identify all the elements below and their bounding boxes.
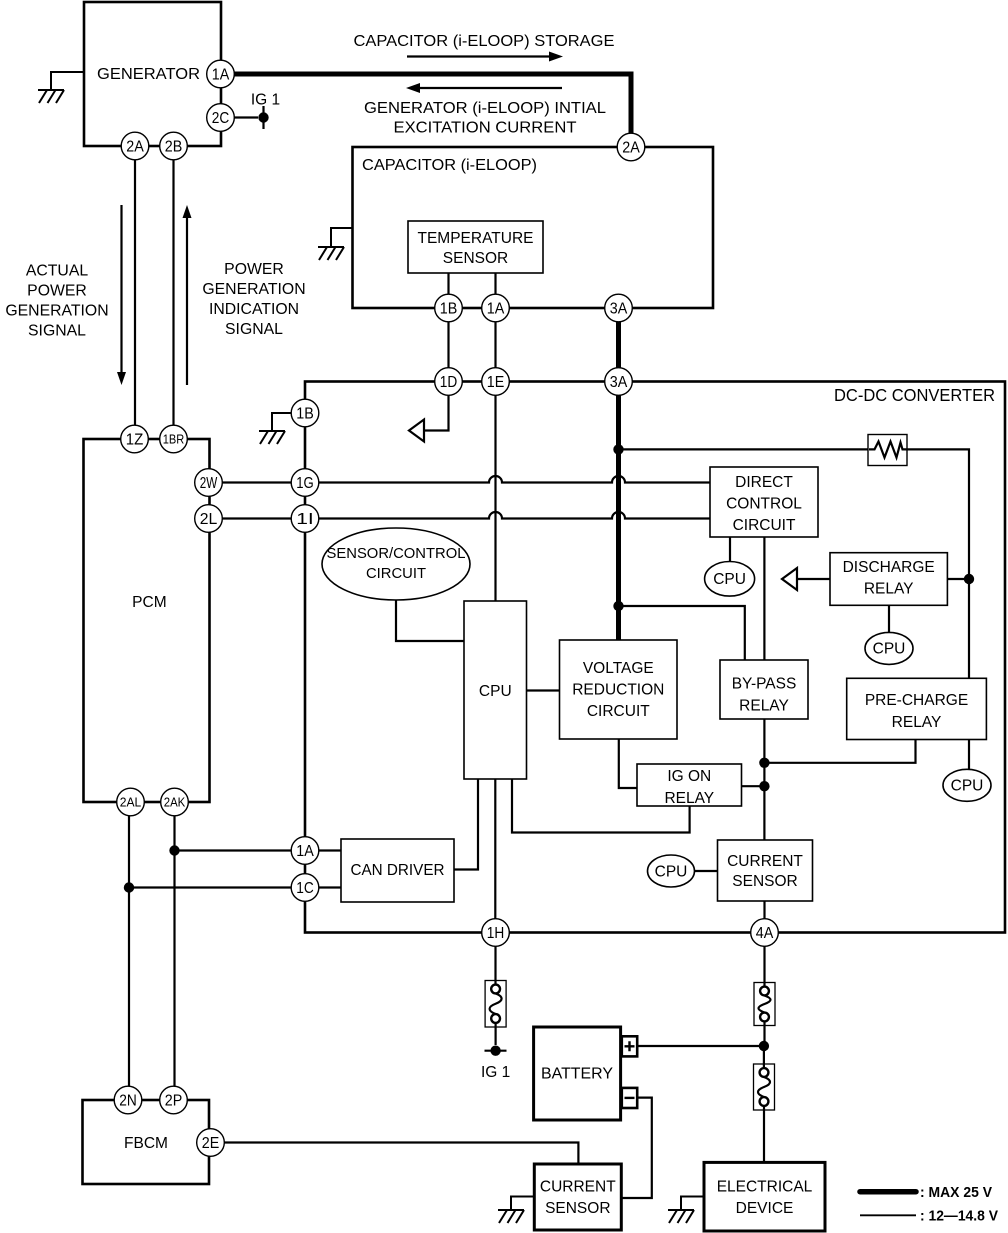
terminal 1B (capacitor) (435, 294, 463, 322)
svg-text:VOLTAGE: VOLTAGE (583, 660, 654, 677)
terminal 3A (capacitor) (605, 294, 633, 322)
node IG 1 (generator) (251, 92, 280, 130)
junction by-pass junction upper (759, 758, 769, 768)
svg-text:: MAX 25 V: : MAX 25 V (920, 1185, 992, 1201)
terminal 2E (FBCM) (197, 1129, 225, 1157)
svg-text:TEMPERATURE: TEMPERATURE (418, 230, 534, 247)
wire voltage reduction to IG ON relay (619, 739, 637, 788)
CAN driver box (341, 839, 454, 902)
wire thick 3A to 3A (616, 322, 621, 369)
svg-text:GENERATION: GENERATION (202, 281, 305, 298)
wire 1D signal wire (425, 395, 449, 431)
svg-text:1E: 1E (487, 374, 505, 391)
label PRE-CHARGE RELAY (865, 692, 968, 731)
wire discharge relay right wire (947, 578, 969, 580)
wire CPU ellipse to current sensor (695, 870, 718, 872)
wire pre-charge relay to CPU (968, 740, 970, 770)
svg-text:IG ON: IG ON (667, 768, 711, 785)
sensor/control circuit ellipse (322, 528, 470, 600)
wire temp sensor to 1B (447, 273, 449, 295)
svg-text:1C: 1C (296, 880, 314, 897)
CPU box (464, 601, 527, 779)
svg-text:ELECTRICAL: ELECTRICAL (717, 1179, 813, 1196)
junction discharge junction (964, 574, 974, 584)
terminal 2N (FBCM) (114, 1086, 142, 1114)
svg-text:CPU: CPU (713, 571, 746, 588)
svg-text:2AK: 2AK (164, 795, 186, 810)
generator GENERATOR box (84, 2, 221, 146)
svg-text:CAPACITOR (i-ELOOP): CAPACITOR (i-ELOOP) (362, 157, 537, 174)
svg-text:3A: 3A (610, 301, 628, 318)
wire by-pass relay down to current sensor (763, 719, 765, 840)
wire capacitor 1B to DC-DC 1D (447, 322, 449, 369)
terminal 1BR (PCM) (160, 425, 188, 453)
terminal 2B (generator) (160, 132, 188, 160)
wire fuse to electrical device (763, 1106, 765, 1162)
label VOLTAGE REDUCTION CIRCUIT (572, 660, 664, 720)
terminal 2A (generator) (121, 132, 149, 160)
ground capacitor ground (318, 228, 353, 260)
fuse fuse (IG1) (485, 981, 506, 1028)
svg-text:SIGNAL: SIGNAL (225, 321, 283, 338)
terminal 1G (DC-DC) (291, 469, 319, 497)
svg-text:: 12—14.8 V: : 12—14.8 V (920, 1209, 998, 1225)
wire sensor/control to CPU (396, 600, 464, 641)
terminal 2A (capacitor) (617, 133, 645, 161)
legend thick line MAX 25 V (860, 1185, 992, 1201)
svg-text:SENSOR/CONTROL: SENSOR/CONTROL (327, 546, 466, 562)
wire IG ON relay to junction (742, 785, 765, 787)
wire 1E to CPU (494, 395, 496, 601)
ground current sensor ground (498, 1197, 534, 1224)
svg-text:1I: 1I (296, 511, 314, 528)
label BY-PASS RELAY (732, 676, 797, 715)
terminal 1E (DC-DC) (482, 368, 510, 396)
wire resistor to right vertical (907, 449, 969, 678)
wire junction to resistor (619, 448, 869, 450)
label DISCHARGE RELAY (843, 559, 935, 598)
svg-text:SENSOR: SENSOR (732, 873, 797, 890)
svg-text:CIRCUIT: CIRCUIT (366, 566, 426, 582)
wire battery + to junction (637, 1045, 764, 1047)
svg-text:2AL: 2AL (120, 795, 142, 810)
svg-text:REDUCTION: REDUCTION (572, 682, 664, 699)
FBCM box (83, 1100, 210, 1184)
terminal 1C (DC-DC left) (291, 874, 319, 902)
open arrow discharge (782, 568, 797, 590)
discharge relay box (830, 553, 947, 606)
svg-text:1A: 1A (212, 67, 230, 84)
wire current sensor to 4A (763, 901, 765, 919)
wire discharge relay left wire (798, 578, 830, 580)
svg-text:1A: 1A (487, 301, 505, 318)
wire pre-charge relay to junction (764, 740, 915, 763)
CPU ellipse current sensor CPU (648, 855, 695, 887)
svg-text:4A: 4A (756, 925, 774, 942)
wire 1H to fuse (494, 946, 496, 985)
svg-text:1A: 1A (296, 843, 314, 860)
ground generator ground (38, 72, 84, 103)
terminal 1A (generator) (207, 60, 235, 88)
electrical device box (704, 1162, 825, 1231)
terminal 2C (generator) (207, 104, 235, 132)
wire direct control circuit to CPU (729, 537, 731, 562)
terminal 1B (DC-DC) (291, 399, 319, 427)
svg-text:2E: 2E (202, 1135, 220, 1152)
battery + terminal (622, 1036, 637, 1056)
label TEMPERATURE SENSOR (418, 230, 534, 267)
current sensor (battery) box (534, 1164, 621, 1230)
wire 2L to 1I (222, 517, 291, 519)
svg-text:1Z: 1Z (126, 432, 144, 449)
wire temp sensor to 1A (494, 273, 496, 295)
svg-text:POWER: POWER (27, 283, 87, 300)
svg-text:PRE-CHARGE: PRE-CHARGE (865, 692, 968, 709)
current sensor (DC-DC) box (718, 840, 813, 901)
wire thick capacitor storage wire (234, 74, 631, 133)
label ACTUAL POWER GENERATION SIGNAL (5, 263, 108, 340)
wire 4A to fuse (763, 946, 765, 986)
wire fuse to IG1 (495, 1022, 497, 1045)
wire 2C to IG1 (234, 116, 258, 118)
svg-text:2A: 2A (622, 140, 640, 157)
svg-text:1G: 1G (296, 475, 314, 492)
svg-text:FBCM: FBCM (124, 1135, 168, 1152)
svg-text:DIRECT: DIRECT (735, 474, 793, 491)
terminal 2L (PCM) (195, 505, 223, 533)
pre-charge relay box (847, 678, 987, 739)
svg-text:GENERATOR (i-ELOOP) INTIAL: GENERATOR (i-ELOOP) INTIAL (364, 100, 606, 117)
terminal 2W (PCM) (195, 469, 223, 497)
svg-text:RELAY: RELAY (892, 714, 942, 731)
label DIRECT CONTROL CIRCUIT (726, 474, 802, 534)
resistor (discharge) (868, 435, 907, 466)
open arrow 1D (409, 420, 424, 442)
terminal 1H (DC-DC) (482, 919, 510, 947)
wire 1A to CAN driver (319, 849, 341, 851)
svg-text:ACTUAL: ACTUAL (26, 263, 89, 280)
wire CAN driver to CPU (454, 779, 478, 870)
svg-text:CURRENT: CURRENT (727, 853, 803, 870)
terminal 2AL (PCM) (117, 788, 145, 816)
svg-text:RELAY: RELAY (664, 790, 714, 807)
terminal 1Z (PCM) (121, 425, 149, 453)
junction battery junction (759, 1041, 769, 1051)
svg-text:GENERATION: GENERATION (5, 303, 108, 320)
svg-text:GENERATOR: GENERATOR (97, 66, 200, 83)
svg-text:BATTERY: BATTERY (541, 1066, 613, 1083)
terminal 1A (DC-DC left) (291, 837, 319, 865)
wire 2AL to FBCM 2N (128, 816, 130, 1087)
voltage reduction circuit box (560, 640, 678, 739)
svg-text:CAPACITOR (i-ELOOP) STORAGE: CAPACITOR (i-ELOOP) STORAGE (354, 33, 615, 50)
capacitor CAPACITOR (i-ELOOP) box (353, 147, 714, 308)
legend thin line 12-14.8 V (860, 1209, 998, 1225)
ground DC-DC 1B ground (259, 413, 292, 444)
svg-text:IG 1: IG 1 (481, 1064, 510, 1081)
svg-text:RELAY: RELAY (864, 581, 914, 598)
IG ON relay box (637, 764, 742, 806)
svg-text:1BR: 1BR (163, 432, 185, 447)
wire junction to by-pass relay (619, 606, 745, 660)
temperature sensor TEMPERATURE SENSOR box (408, 221, 543, 273)
terminal 1D (DC-DC) (435, 368, 463, 396)
svg-text:2A: 2A (126, 139, 144, 156)
battery - terminal (622, 1088, 637, 1108)
svg-text:1D: 1D (440, 374, 458, 391)
terminal 2AK (PCM) (161, 788, 189, 816)
junction 2AL junction (124, 882, 134, 892)
svg-text:PCM: PCM (132, 594, 166, 611)
svg-text:2B: 2B (165, 139, 183, 156)
wire fuse to battery junction (763, 1022, 765, 1043)
svg-text:CIRCUIT: CIRCUIT (733, 517, 796, 534)
CPU ellipse direct control CPU (705, 562, 755, 597)
wire 1C to CAN driver (319, 886, 341, 888)
wire 2W to 1G (222, 481, 291, 483)
wire junction to fuse (763, 1046, 765, 1068)
svg-text:CPU: CPU (951, 778, 984, 795)
ground electrical device ground (668, 1197, 704, 1224)
label IG ON RELAY (664, 768, 714, 807)
svg-text:CPU: CPU (655, 863, 688, 880)
label CURRENT SENSOR (DC-DC) (727, 853, 803, 890)
svg-text:RELAY: RELAY (739, 698, 789, 715)
terminal 1I (DC-DC) (291, 505, 319, 533)
DC-DC converter box (305, 382, 1005, 933)
svg-text:CAN DRIVER: CAN DRIVER (351, 862, 445, 879)
arrow power generation indication signal (up) (183, 205, 192, 385)
svg-text:CIRCUIT: CIRCUIT (587, 703, 650, 720)
svg-text:DISCHARGE: DISCHARGE (843, 559, 935, 576)
junction by-pass junction lower (759, 781, 769, 791)
battery BATTERY box (534, 1027, 621, 1120)
label CURRENT SENSOR (battery) (540, 1179, 616, 1218)
arrow storage (right) (407, 52, 563, 62)
arrow actual power generation signal (down) (117, 205, 126, 385)
wire CPU to voltage reduction circuit (527, 689, 560, 691)
svg-text:2N: 2N (119, 1093, 137, 1110)
svg-text:1H: 1H (487, 925, 505, 942)
svg-text:CONTROL: CONTROL (726, 496, 802, 513)
wire battery - to current sensor (622, 1098, 652, 1198)
junction thick line junction upper (613, 444, 623, 454)
svg-text:2L: 2L (200, 511, 218, 528)
svg-text:3A: 3A (610, 374, 628, 391)
terminal 2P (FBCM) (160, 1086, 188, 1114)
junction thick line junction lower (613, 601, 623, 611)
svg-text:POWER: POWER (224, 261, 284, 278)
svg-text:2P: 2P (165, 1093, 183, 1110)
svg-text:DEVICE: DEVICE (736, 1200, 794, 1217)
svg-text:CPU: CPU (479, 683, 512, 700)
wire 1I into direct control circuit (319, 512, 710, 519)
PCM box (84, 439, 210, 802)
svg-text:SENSOR: SENSOR (443, 250, 508, 267)
svg-text:EXCITATION CURRENT: EXCITATION CURRENT (394, 120, 578, 137)
svg-text:BY-PASS: BY-PASS (732, 676, 797, 693)
svg-text:IG 1: IG 1 (251, 92, 280, 109)
svg-text:SIGNAL: SIGNAL (28, 323, 86, 340)
svg-text:CPU: CPU (873, 641, 906, 658)
label GENERATOR (i-ELOOP) INTIAL EXCITATION CURRENT (364, 100, 606, 137)
terminal 4A (DC-DC) (751, 919, 779, 947)
node IG 1 (battery side) (481, 1046, 510, 1082)
svg-text:2C: 2C (212, 110, 230, 127)
by-pass relay box (720, 660, 808, 719)
wire 2AK to FBCM 2P (173, 816, 175, 1087)
wire IG ON relay to CPU (512, 779, 690, 833)
label ELECTRICAL DEVICE (717, 1179, 813, 1218)
CPU ellipse discharge CPU (865, 632, 913, 664)
wire junction to 1C (129, 886, 291, 888)
svg-text:2W: 2W (200, 475, 218, 492)
svg-text:INDICATION: INDICATION (209, 301, 299, 318)
arrow excitation (left) (406, 83, 562, 93)
wire direct control circuit to by-pass relay (763, 537, 765, 660)
wire thick 3A down to voltage reduction circuit (616, 395, 621, 640)
wire capacitor 1A to DC-DC 1E (494, 322, 496, 369)
junction 2AK junction (169, 845, 179, 855)
svg-text:1B: 1B (296, 406, 314, 423)
terminal 3A (DC-DC) (605, 368, 633, 396)
wire discharge relay to CPU (888, 605, 890, 632)
direct control circuit box (710, 467, 818, 537)
CPU ellipse pre-charge CPU (943, 769, 991, 801)
fuse fuse (electrical device) (754, 1064, 775, 1110)
wire junction to 1A (175, 849, 292, 851)
wire FBCM 2E to current sensor (225, 1143, 579, 1164)
wire generator 2A to PCM 1Z (134, 160, 136, 426)
wire generator 2B to PCM 1BR (172, 160, 174, 426)
svg-text:1B: 1B (440, 301, 458, 318)
wire CPU to 1H (494, 779, 496, 919)
label POWER GENERATION INDICATION SIGNAL (202, 261, 305, 338)
wire 1G into direct control circuit (319, 476, 710, 482)
svg-text:CURRENT: CURRENT (540, 1179, 616, 1196)
svg-text:DC-DC CONVERTER: DC-DC CONVERTER (834, 385, 995, 405)
svg-text:SENSOR: SENSOR (545, 1200, 610, 1217)
terminal 1A (capacitor) (482, 294, 510, 322)
fuse fuse (4A) (754, 983, 775, 1026)
